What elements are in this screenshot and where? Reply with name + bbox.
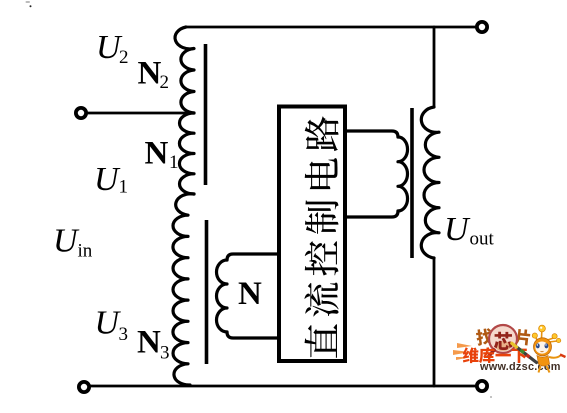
svg-text:U: U xyxy=(444,211,471,248)
svg-text:2: 2 xyxy=(160,72,170,93)
svg-text:U: U xyxy=(95,305,122,342)
svg-text:N: N xyxy=(138,56,162,92)
svg-text:3: 3 xyxy=(160,343,170,364)
svg-text:1: 1 xyxy=(169,152,179,173)
svg-text:1: 1 xyxy=(119,177,129,198)
svg-text:in: in xyxy=(78,241,93,262)
svg-text:N: N xyxy=(145,136,169,172)
svg-text:2: 2 xyxy=(119,47,129,68)
svg-text:U: U xyxy=(53,223,80,260)
svg-text:U: U xyxy=(94,161,121,198)
svg-text:out: out xyxy=(470,229,495,250)
svg-text:3: 3 xyxy=(119,324,129,345)
svg-text:N: N xyxy=(238,276,262,312)
svg-text:N: N xyxy=(137,325,161,361)
